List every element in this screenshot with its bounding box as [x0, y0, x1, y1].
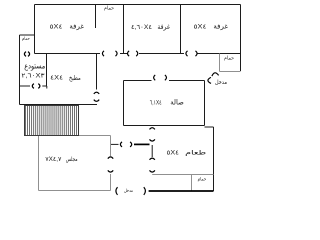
svg-text:ﻡﺎﻤﺣ: ﻡﺎﻤﺣ	[224, 56, 234, 62]
svg-text:٤,٦٠X٤: ٤,٦٠X٤	[131, 24, 152, 31]
svg-text:ﻉﺩﻮﺘﺴﻣ: ﻉﺩﻮﺘﺴﻣ	[24, 62, 45, 71]
svg-text:ﻡﺎﻌﻃ: ﻡﺎﻌﻃ	[185, 150, 206, 157]
svg-text:ﻡﺎﻤﺣ: ﻡﺎﻤﺣ	[198, 177, 207, 182]
svg-text:ﺔﻟﺎﺻ: ﺔﻟﺎﺻ	[170, 97, 184, 106]
svg-text:ﺔﻓﺮﻏ: ﺔﻓﺮﻏ	[69, 24, 84, 31]
svg-text:ﻞﺧﺪﻣ: ﻞﺧﺪﻣ	[124, 188, 133, 193]
svg-text:ﻞﺧﺪﻣ: ﻞﺧﺪﻣ	[215, 80, 227, 86]
svg-text:٥X٤: ٥X٤	[50, 24, 63, 31]
svg-text:ﺔﻓﺮﻏ: ﺔﻓﺮﻏ	[157, 24, 170, 31]
svg-text:ﺔﻓﺮﻏ: ﺔﻓﺮﻏ	[213, 24, 228, 31]
svg-text:٦,١X٤: ٦,١X٤	[150, 99, 162, 106]
svg-text:٥X٤: ٥X٤	[194, 24, 207, 31]
svg-text:ﺦﺒﻄﻣ: ﺦﺒﻄﻣ	[69, 75, 81, 82]
svg-text:٢,٦٠X٣: ٢,٦٠X٣	[21, 72, 45, 79]
svg-text:ﻡﺎﻤﺣ: ﻡﺎﻤﺣ	[22, 36, 30, 41]
svg-text:ﻡﺎﻤﺣ: ﻡﺎﻤﺣ	[104, 6, 114, 12]
svg-text:ﺲﻠﺠﻣ: ﺲﻠﺠﻣ	[66, 157, 78, 163]
svg-text:٥X٤: ٥X٤	[167, 149, 180, 156]
svg-text:٤X٤: ٤X٤	[50, 74, 63, 81]
svg-text:٧X٤,٧: ٧X٤,٧	[45, 156, 62, 163]
